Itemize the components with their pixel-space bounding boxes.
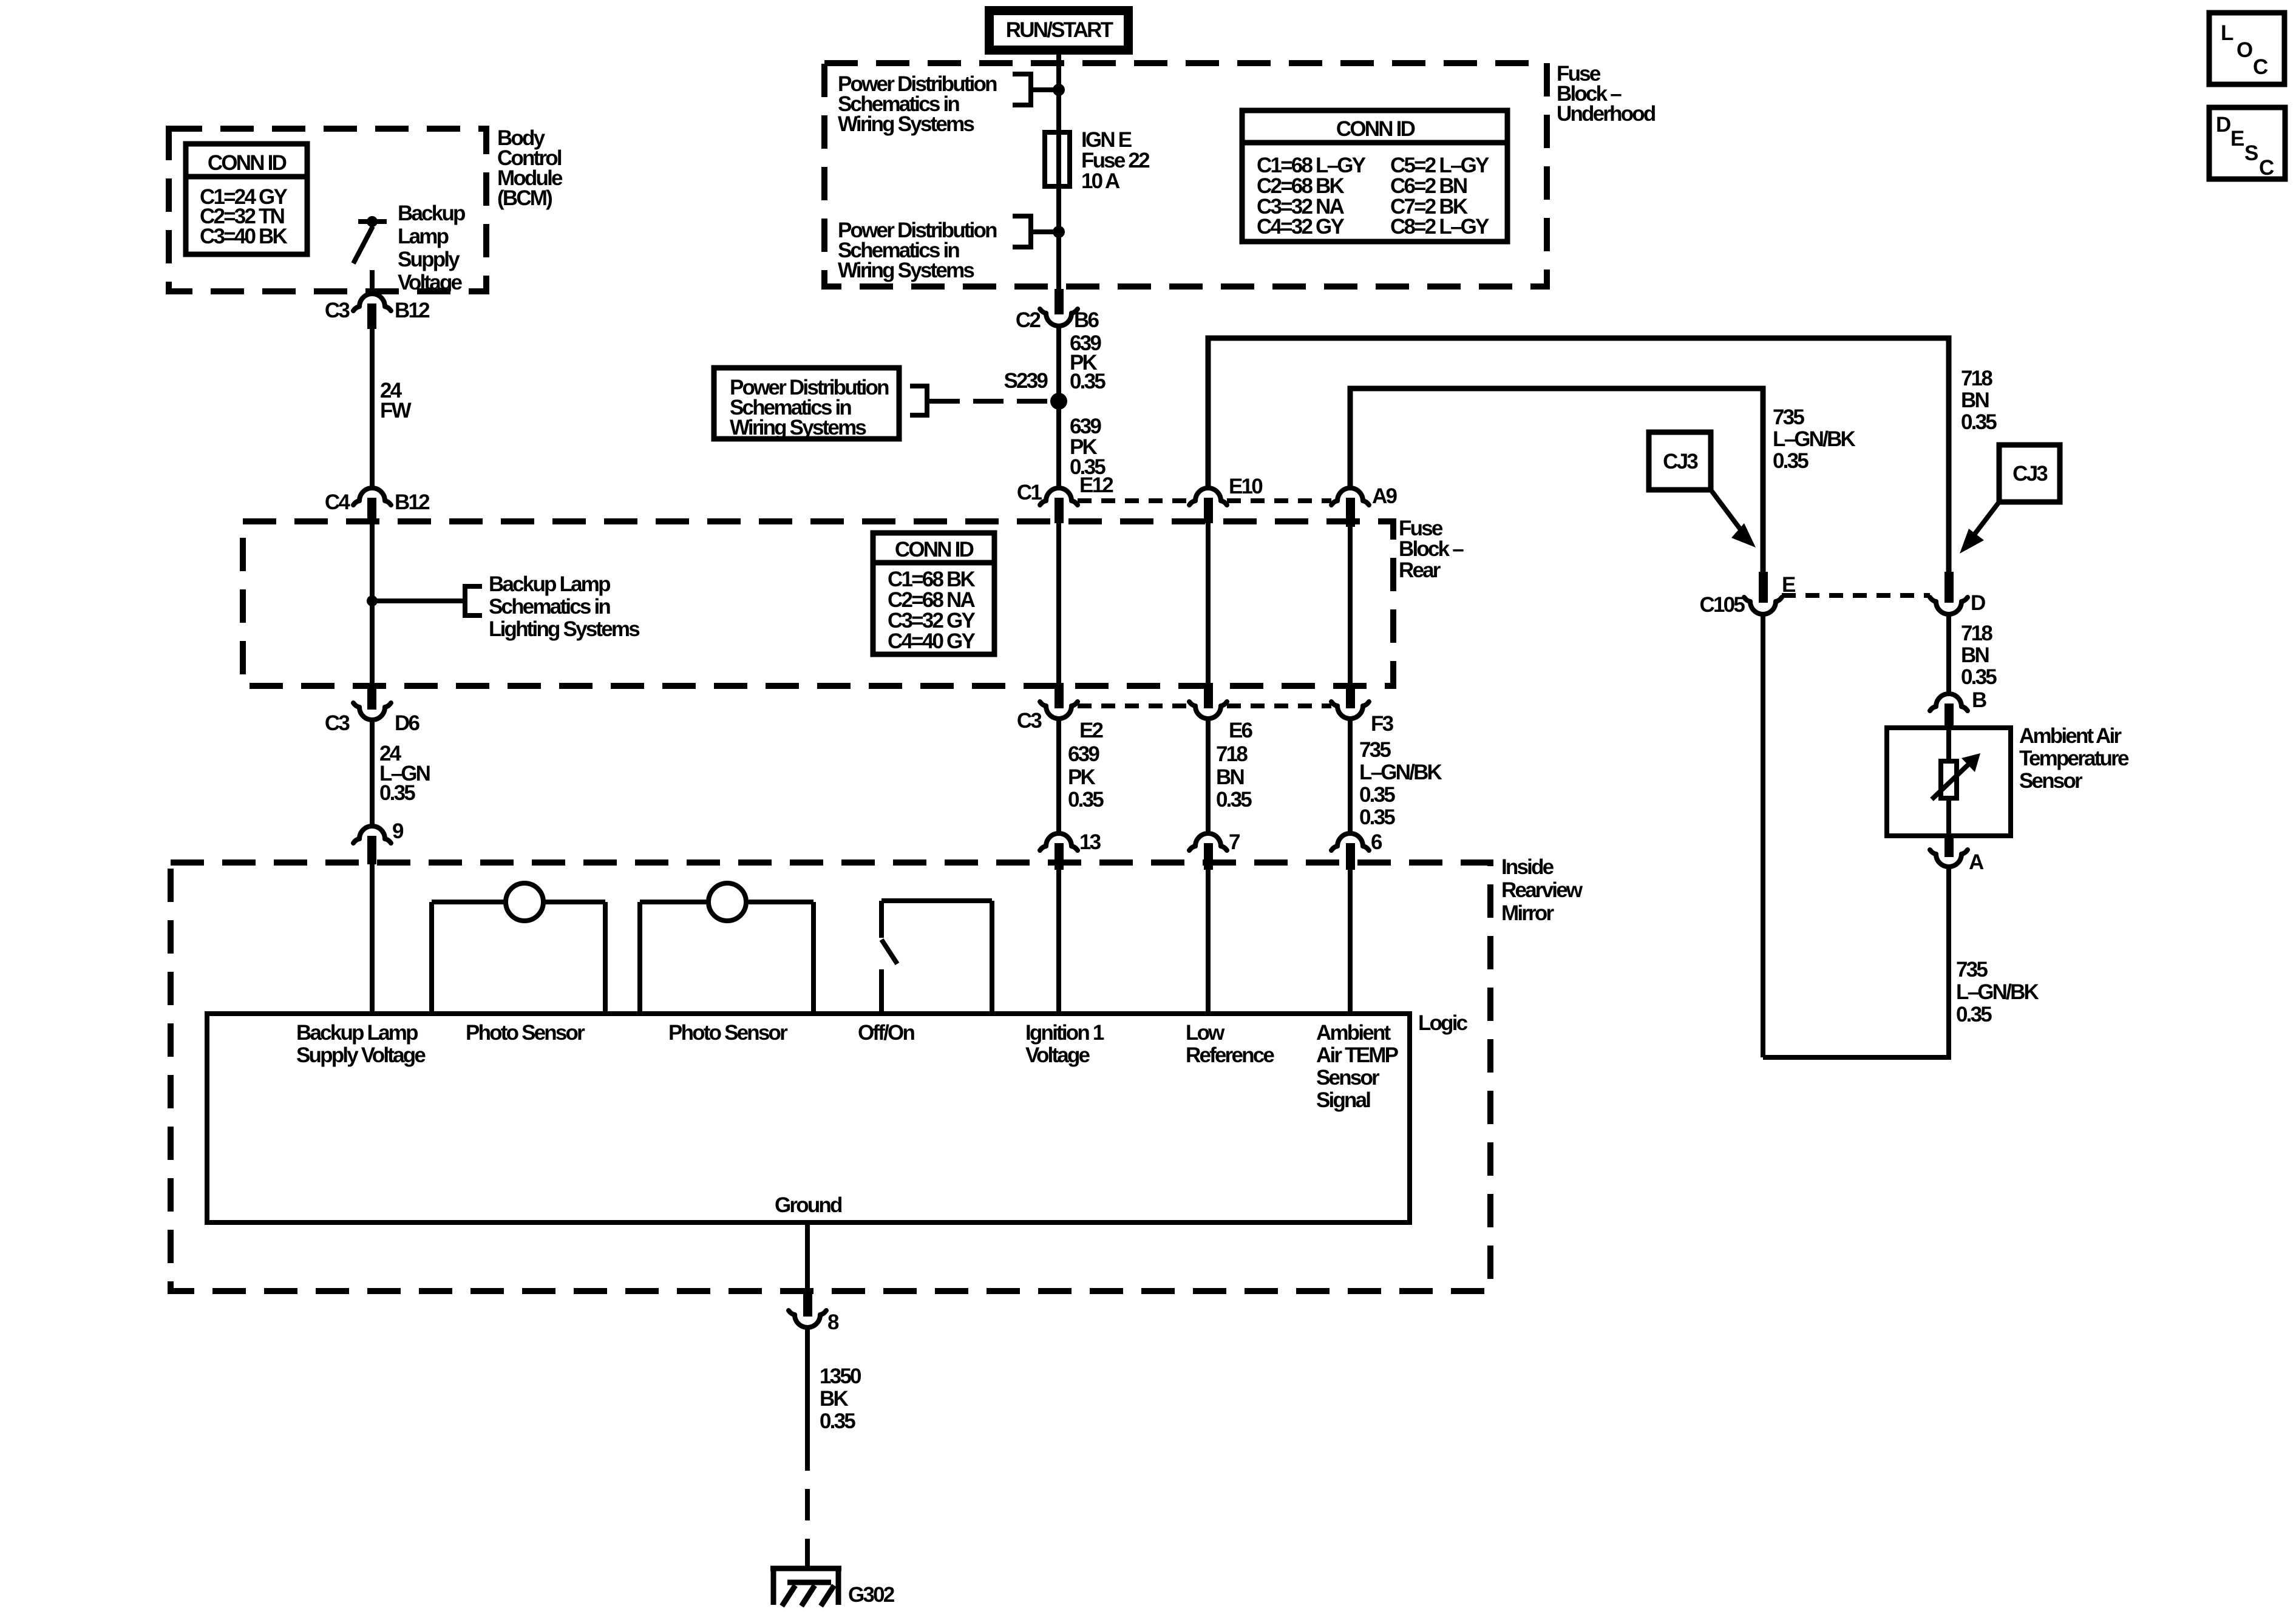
svg-text:Reference: Reference (1186, 1043, 1274, 1067)
svg-text:Rear: Rear (1399, 558, 1441, 582)
svg-text:Underhood: Underhood (1557, 102, 1656, 126)
svg-text:Logic: Logic (1418, 1011, 1468, 1035)
CONN ID table (BCM) (186, 144, 307, 254)
wire E12 down (1056, 523, 1061, 683)
svg-text:718: 718 (1216, 742, 1248, 766)
svg-text:F3: F3 (1371, 712, 1394, 736)
wire F3 down to pin 6 (1348, 719, 1353, 834)
svg-text:C: C (2253, 55, 2268, 79)
connector D (pin + cup) (1930, 572, 1985, 615)
svg-text:0.35: 0.35 (379, 781, 415, 805)
svg-text:Backup Lamp: Backup Lamp (296, 1021, 418, 1045)
wire label 735 L-GN/BK 0.35 0.35 (sensor signal) (1359, 738, 1442, 829)
svg-text:Sensor: Sensor (2019, 769, 2083, 793)
Fuse Block - Underhood dashed box (824, 63, 1547, 286)
svg-text:CJ3: CJ3 (2012, 462, 2048, 486)
svg-text:C1: C1 (1017, 481, 1042, 504)
callout CJ3 (right) (1960, 445, 2060, 554)
svg-text:Sensor: Sensor (1316, 1066, 1380, 1090)
svg-text:PK: PK (1068, 765, 1096, 789)
connector A9 (dome + pin) (1331, 484, 1397, 527)
svg-text:735: 735 (1359, 738, 1391, 762)
wire pin13 to logic (1056, 870, 1061, 1014)
connector E6 (pin + cup) (1189, 683, 1253, 742)
svg-text:C3=40 BK: C3=40 BK (200, 225, 288, 248)
connector E10 (dome + pin) (1189, 475, 1263, 523)
Inside Rearview Mirror dashed box (171, 863, 1490, 1291)
svg-text:0.35: 0.35 (1359, 783, 1395, 807)
wire label 718 BN 0.35 (top right) (1961, 367, 1997, 434)
svg-text:Lamp: Lamp (398, 225, 449, 248)
connector C4 B12 (dome + pin) (325, 488, 430, 522)
wire E10 up and across to D (718 BN) (1208, 338, 1949, 572)
label Backup Lamp Supply Voltage (398, 202, 465, 294)
wire label 1350 BK 0.35 (820, 1364, 861, 1433)
svg-text:Low: Low (1186, 1021, 1225, 1045)
wire label 718 BN 0.35 (below D) (1961, 622, 1997, 689)
svg-text:(BCM): (BCM) (497, 186, 552, 210)
svg-text:C3: C3 (325, 711, 350, 735)
label Fuse Block - Underhood (1557, 62, 1656, 126)
svg-text:C2: C2 (1016, 308, 1041, 332)
svg-text:C4=32 GY: C4=32 GY (1257, 215, 1344, 239)
svg-text:Signal: Signal (1316, 1088, 1370, 1112)
svg-text:D: D (2216, 113, 2230, 137)
note: Backup Lamp Schematics in Lighting Systems (489, 572, 640, 641)
svg-text:E12: E12 (1079, 473, 1113, 497)
svg-text:E2: E2 (1079, 719, 1104, 742)
splice S239 (1004, 369, 1067, 410)
svg-text:0.35: 0.35 (1961, 665, 1997, 689)
wire label 24 L-GN 0.35 (379, 742, 430, 805)
svg-text:BN: BN (1216, 765, 1243, 789)
bracket to node (upper) (1013, 72, 1056, 107)
svg-text:S: S (2244, 141, 2258, 165)
svg-text:E10: E10 (1229, 475, 1263, 498)
svg-text:L: L (2221, 21, 2233, 45)
connector pin 13 (dome + pin) (1040, 830, 1101, 870)
svg-text:O: O (2237, 38, 2252, 62)
wire label 718 BN 0.35 (low reference) (1216, 742, 1252, 812)
connector frame dashes E2-E6-F3 (1078, 703, 1189, 708)
svg-text:B12: B12 (395, 299, 430, 322)
svg-text:Block –: Block – (1399, 537, 1464, 561)
svg-text:CJ3: CJ3 (1663, 450, 1698, 473)
connector C3 D6 (pin + cup) (325, 684, 420, 735)
svg-text:Voltage: Voltage (1025, 1043, 1090, 1067)
svg-text:Ambient Air: Ambient Air (2019, 724, 2122, 748)
label Ambient Air Temperature Sensor (2019, 724, 2129, 793)
svg-text:0.35: 0.35 (820, 1409, 855, 1433)
svg-text:D: D (1971, 591, 1985, 615)
connector B (dome + pin) (1930, 688, 1986, 728)
svg-text:0.35: 0.35 (1216, 788, 1252, 812)
svg-text:10 A: 10 A (1081, 169, 1120, 193)
pin label Backup Lamp Supply Voltage (296, 1021, 426, 1067)
svg-text:CONN ID: CONN ID (1336, 117, 1415, 141)
junction dot (upper) (1053, 84, 1065, 96)
svg-text:G302: G302 (848, 1583, 895, 1607)
svg-text:Voltage: Voltage (398, 271, 463, 294)
svg-text:6: 6 (1371, 830, 1382, 854)
wire E10 down (1206, 523, 1211, 683)
mirror logic box (207, 1014, 1410, 1222)
wire label 735 L-GN/BK 0.35 (sensor return) (1956, 958, 2039, 1026)
svg-text:Schematics in: Schematics in (489, 595, 610, 619)
svg-text:A9: A9 (1372, 484, 1397, 508)
svg-text:B12: B12 (395, 490, 430, 514)
connector F3 (pin + cup) (1331, 683, 1394, 736)
wire C105 E down (1761, 614, 1765, 1057)
LOC box (2209, 13, 2284, 84)
DESC box (2209, 107, 2285, 180)
svg-text:Photo Sensor: Photo Sensor (668, 1021, 788, 1045)
bracket to node (lower) (1013, 214, 1056, 249)
connector pin 7 (dome + pin) (1189, 830, 1240, 870)
svg-text:L–GN/BK: L–GN/BK (1359, 761, 1442, 784)
svg-text:639: 639 (1068, 742, 1099, 766)
svg-text:D6: D6 (395, 711, 419, 735)
Fuse Block - Rear dashed box (243, 521, 1393, 686)
svg-text:Wiring Systems: Wiring Systems (730, 416, 866, 439)
wire C3/B12 down to C4/B12 (370, 329, 375, 489)
connector pin 9 (dome + pin) (353, 819, 404, 864)
svg-text:B6: B6 (1074, 308, 1099, 332)
svg-text:Mirror: Mirror (1501, 901, 1555, 925)
svg-text:E: E (2230, 127, 2244, 151)
wire label 24 FW (380, 379, 412, 422)
svg-text:1350: 1350 (820, 1364, 861, 1388)
svg-text:RUN/START: RUN/START (1006, 18, 1113, 42)
svg-text:Photo Sensor: Photo Sensor (466, 1021, 585, 1045)
wire pin9 to mirror logic (370, 864, 375, 1014)
svg-text:C: C (2259, 156, 2274, 180)
off/on switch (881, 901, 992, 1014)
svg-text:C3: C3 (1017, 709, 1042, 733)
svg-text:BN: BN (1961, 388, 1988, 412)
svg-text:Lighting Systems: Lighting Systems (489, 617, 640, 641)
svg-text:FW: FW (380, 399, 412, 422)
svg-text:C4=40 GY: C4=40 GY (888, 629, 975, 653)
svg-text:Wiring Systems: Wiring Systems (838, 259, 974, 282)
svg-text:0.35: 0.35 (1070, 370, 1106, 393)
wire label 639 PK 0.35 (above S239) (1070, 331, 1106, 393)
switch: backup lamp supply voltage driver (353, 216, 387, 296)
svg-text:Backup Lamp: Backup Lamp (489, 572, 610, 596)
photo sensor 1 (432, 883, 605, 1014)
wire A9 up and across to C105 E (735 L-GN/BK) (1350, 388, 1763, 572)
svg-text:735: 735 (1773, 405, 1804, 429)
wire label 639 PK 0.35 (below S239) (1070, 415, 1106, 479)
connector C1 E12 (dome + pin) (1017, 473, 1113, 523)
svg-text:Backup: Backup (398, 202, 465, 225)
wire pin7 to logic (1206, 870, 1211, 1014)
wire label 639 PK 0.35 (ignition feed) (1068, 742, 1104, 812)
Body Control Module dashed box (169, 129, 486, 291)
svg-text:Ignition 1: Ignition 1 (1025, 1021, 1104, 1045)
svg-text:0.35: 0.35 (1359, 805, 1395, 829)
note: Power Distribution Schematics in Wiring Systems (upper) (838, 72, 997, 136)
fuse IGN E Fuse 22 10 A (1045, 128, 1150, 193)
svg-text:8: 8 (827, 1310, 839, 1334)
svg-text:Ambient: Ambient (1316, 1021, 1391, 1045)
connector pin 6 (dome + pin) (1331, 830, 1382, 870)
svg-text:Off/On: Off/On (858, 1021, 914, 1045)
note: Power Distribution Schematics in Wiring Systems (lower) (838, 219, 997, 282)
junction dot (lower) (1053, 226, 1065, 238)
svg-text:S239: S239 (1004, 369, 1048, 393)
svg-text:0.35: 0.35 (1068, 788, 1104, 812)
pin label Low Reference (1186, 1021, 1274, 1067)
callout CJ3 (left) (1649, 432, 1756, 547)
svg-text:C105: C105 (1700, 593, 1745, 617)
svg-text:7: 7 (1229, 830, 1240, 854)
bracket backup lamp note (465, 584, 482, 618)
wire E6 down to pin 7 (1206, 719, 1211, 834)
svg-text:Ground: Ground (775, 1193, 842, 1217)
svg-text:Supply: Supply (398, 248, 460, 271)
wire D down to B (1946, 614, 1951, 694)
svg-text:L–GN/BK: L–GN/BK (1956, 980, 2039, 1004)
svg-text:BN: BN (1961, 643, 1988, 667)
svg-text:Rearview: Rearview (1501, 878, 1583, 902)
svg-text:0.35: 0.35 (1956, 1003, 1992, 1026)
wire pin 8 down (805, 1327, 810, 1439)
ground wire down from logic box (805, 1222, 810, 1294)
svg-text:CONN ID: CONN ID (208, 151, 287, 175)
wire RUN/START down through fuse block underhood (1056, 55, 1061, 289)
svg-text:718: 718 (1961, 622, 1992, 645)
svg-text:L–GN/BK: L–GN/BK (1773, 427, 1856, 451)
wire label 735 L-GN/BK 0.35 (top right) (1773, 405, 1856, 473)
note box: Power Distribution Schematics in Wiring Systems (at S239) (714, 368, 899, 439)
connector C3 E2 (pin + cup) (1017, 683, 1104, 742)
svg-text:9: 9 (392, 819, 404, 843)
connector A (pin + cup) (1930, 836, 1984, 874)
connector frame dashes E-D (1782, 593, 1930, 598)
Ambient Air Temperature Sensor box (1887, 728, 2011, 836)
junction dot to backup lamp note (367, 595, 378, 606)
svg-text:Temperature: Temperature (2019, 747, 2129, 770)
svg-text:735: 735 (1956, 958, 1988, 981)
svg-text:A: A (1969, 850, 1984, 874)
label Fuse Block - Rear (1399, 517, 1464, 582)
CONN ID table (fuse block underhood) (1242, 110, 1507, 242)
svg-text:CONN ID: CONN ID (895, 538, 974, 561)
svg-text:Inside: Inside (1501, 855, 1554, 879)
svg-text:0.35: 0.35 (1773, 449, 1809, 473)
dashed leader to splice S239 (929, 399, 1048, 404)
svg-text:B: B (1972, 688, 1986, 712)
svg-text:0.35: 0.35 (1961, 410, 1997, 434)
svg-text:C4: C4 (325, 490, 350, 514)
svg-text:Supply Voltage: Supply Voltage (296, 1043, 426, 1067)
wire A down and left to C105 vertical (1763, 866, 1949, 1057)
wire to bracket (372, 598, 465, 603)
power feed RUN/START box (985, 6, 1133, 55)
label Inside Rearview Mirror (1501, 855, 1583, 925)
CONN ID table (fuse block rear) (873, 533, 994, 654)
dashed wire to ground (805, 1439, 810, 1568)
svg-text:E6: E6 (1229, 719, 1253, 742)
connector pin 8 (pin + cup) (789, 1291, 839, 1334)
wire E2 down to pin 13 (1056, 719, 1061, 834)
svg-text:718: 718 (1961, 367, 1992, 390)
svg-text:13: 13 (1079, 830, 1101, 854)
wire A9 down (1348, 527, 1353, 683)
wire C2 to S239 (1056, 326, 1061, 489)
photo sensor 2 (640, 883, 813, 1014)
svg-text:C8=2 L–GY: C8=2 L–GY (1390, 215, 1489, 239)
wire C3/D6 down to mirror pin 9 (370, 720, 375, 827)
connector frame dashes E12-E10-A9 (1078, 498, 1189, 503)
label Body Control Module (BCM) (497, 126, 563, 210)
wire pin6 to logic (1348, 870, 1353, 1014)
pin label Ambient Air TEMP Sensor Signal (1316, 1021, 1399, 1112)
svg-text:BK: BK (820, 1387, 848, 1411)
bracket at S239 note (910, 384, 927, 418)
svg-text:Air TEMP: Air TEMP (1316, 1043, 1399, 1067)
connector C2 B6 (pin + cup) (1016, 289, 1099, 332)
connector C3 B12 (dome + pin) (325, 294, 430, 329)
wire C4/B12 down through rear fuse block (370, 522, 375, 684)
svg-text:C3: C3 (325, 299, 350, 322)
ground G302 (770, 1566, 895, 1607)
pin label Ignition 1 Voltage (1025, 1021, 1104, 1067)
svg-text:Wiring Systems: Wiring Systems (838, 112, 974, 136)
connector C105 E (pin + cup) (1700, 572, 1795, 617)
